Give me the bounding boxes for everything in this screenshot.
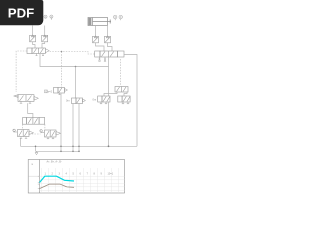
wire: 2V2f down to valve 2V3 port 2 — [108, 43, 113, 51]
step diagram row separator in label column — [28, 175, 39, 177]
interlock valve 1V4 — [23, 118, 45, 125]
junction dots on bus lines — [35, 145, 110, 152]
pilot line: 2V3 right pilot down to shuttle valve 2V4 (dashed) — [120, 59, 122, 86]
pilot line: 1V4 right down to 2V7 (dashed) — [44, 124, 46, 130]
exhaust marks below valve 2V3 — [99, 60, 107, 62]
sensor circle 2S2 — [119, 15, 123, 20]
wire: 1V3 supply down and right along manifold — [40, 54, 109, 67]
wire: riser from 2V5 down to bus line1 — [108, 102, 110, 146]
flow control valve 1V1 — [30, 35, 36, 42]
wire: 2V2 bottom port down to lower bus — [78, 104, 80, 152]
pilot line: 1V3 left pilot to start valve 1S1 (dashed) — [16, 51, 27, 92]
wire: supply riser x108.5 from manifold down to valve 2V5 — [108, 57, 110, 96]
displacement curve cylinder A (cyan) — [40, 176, 75, 182]
step diagram horizontal gridlines — [40, 176, 125, 190]
5/2-way impulse valve 2V3 — [95, 51, 124, 59]
svg-text:PDF: PDF — [8, 5, 34, 20]
step diagram box — [28, 160, 124, 194]
wire: 1V1 to valve 1V3 port 4 — [33, 42, 35, 48]
svg-text:0m: 0m — [66, 99, 70, 103]
wire: 2V6 output down to bus line1 — [20, 139, 22, 147]
exhaust mark at line2 start — [35, 151, 38, 154]
valve 2V5 — [98, 96, 110, 104]
roller valve 2V6 — [13, 129, 34, 138]
valve 1V5 (pressure valve, label 0m=2) — [54, 88, 68, 95]
junction on pilot line at x61.5 — [61, 51, 63, 53]
wire: 2V4 left output to valve 2V5 — [104, 92, 117, 96]
junction at manifold x75.5 — [75, 66, 77, 68]
wire: 1S3 output down to interlock valve 1V4 — [28, 103, 33, 117]
wire: manifold down to valve 2V2 — [75, 67, 77, 99]
svg-text:0m: 0m — [93, 97, 97, 101]
wire: 2V4 right output to valve 2V8 — [124, 92, 127, 96]
wire: cylinder A right port down to flow control 1V2 — [44, 26, 46, 36]
wire: 2V3 right port to riser — [124, 55, 137, 147]
wire: cylinder A left port down to flow control 1V1 — [32, 26, 34, 36]
shuttle valve 2V4 — [115, 87, 128, 93]
sensor circle 2S1 — [113, 15, 117, 20]
label box near 1S3 — [45, 90, 48, 93]
pilot line between 2V6 and 2V7 (dashed) — [29, 133, 41, 135]
flow control valve 1V2 — [42, 35, 48, 42]
wire: cylinder 2A left port down — [95, 26, 97, 37]
pilot line: 1V3 right pilot to valve 2V3 left pilot (dashed) — [50, 52, 95, 55]
wire: cylinder 2A right port down — [106, 26, 108, 37]
sensor circle 1S1 (right of PDF badge) — [44, 15, 47, 18]
wire: 2V2 left port down to lower bus — [72, 104, 74, 152]
bus line1 — [21, 145, 138, 147]
bus line2 — [36, 146, 80, 151]
flow control valve 2V2f — [105, 36, 111, 43]
wire: 1V2 to valve 1V3 port 2 — [42, 42, 45, 48]
5/2-way impulse valve 1V3 — [27, 48, 49, 56]
svg-text:A+, B+, A-, B-: A+, B+, A-, B- — [47, 161, 62, 164]
svg-text:10=1: 10=1 — [108, 172, 114, 175]
sensor circle 1S2 — [50, 15, 53, 20]
roller valve 2V7 — [40, 130, 61, 139]
flow control valve 2V1 — [93, 36, 99, 43]
PDF badge — [0, 0, 43, 25]
displacement curve cylinder B (gray) — [40, 184, 75, 189]
step numbers 1..10=1 — [45, 172, 114, 175]
valve 2V2 (pressure valve) — [72, 98, 86, 104]
start valve 1S3 (3/2 with actuator) — [14, 95, 39, 104]
wire: 1V5 down to lower bus — [60, 93, 62, 151]
valve 2V8 — [118, 96, 130, 104]
wire: 2V1 down to valve 2V3 port 4 — [96, 43, 105, 51]
step diagram vertical gridlines — [42, 168, 119, 193]
pilot branch down to valve 1V5 (dashed) — [61, 52, 63, 88]
cylinder 2A (double acting) — [88, 18, 111, 26]
axis level ticks — [38, 176, 40, 188]
pilot line: 1V4 left down to 2V6 (dashed) — [21, 124, 23, 129]
